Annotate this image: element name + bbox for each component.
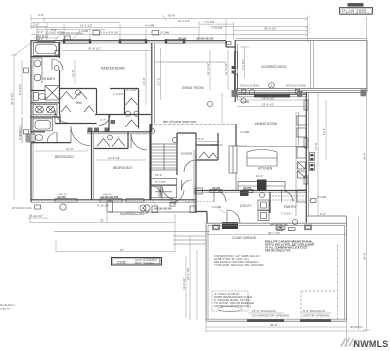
svg-text:PLAN 2685: PLAN 2685 — [342, 9, 367, 14]
svg-text:PER IRC R302.6 TYP.: PER IRC R302.6 TYP. — [265, 249, 291, 253]
svg-text:PANTRY: PANTRY — [284, 205, 298, 209]
entry closet boxes below stairs — [151, 178, 177, 198]
deck posts at house corner — [311, 41, 314, 89]
svg-text:30'-6 1/2": 30'-6 1/2" — [10, 92, 14, 105]
svg-text:(4'-1 1/2": (4'-1 1/2" — [178, 19, 190, 23]
window header labels above bottom wall — [57, 194, 119, 199]
svg-text:UTILITY: UTILITY — [240, 204, 253, 208]
closet by nook — [196, 133, 218, 160]
svg-text:2-CHB: 2-CHB — [212, 205, 221, 209]
front door arcs at entry — [214, 190, 226, 202]
entry door arcs — [162, 186, 184, 203]
sq ft box — [112, 258, 162, 266]
svg-text:33': 33' — [100, 218, 104, 222]
keynote box A garage top-left — [213, 225, 220, 230]
nook dims interior — [198, 50, 249, 147]
master vanity double sinks — [31, 103, 60, 115]
svg-text:12'-6 1/2": 12'-6 1/2" — [182, 277, 186, 290]
svg-text:SCALE 1/4": SCALE 1/4" — [0, 308, 11, 311]
svg-text:36'-6 1/2": 36'-6 1/2" — [264, 26, 277, 30]
svg-text:16'-2": 16'-2" — [155, 173, 163, 177]
svg-text:20'-4 1/2": 20'-4 1/2" — [88, 47, 101, 51]
svg-text:13'-6 1/2": 13'-6 1/2" — [206, 62, 210, 75]
kitchen bottom counter with sink — [238, 174, 285, 196]
garage note block right — [265, 240, 314, 253]
deck rail posts — [232, 90, 367, 98]
3-CHB leader right wall — [308, 195, 326, 216]
bedroom 2 door arc — [71, 127, 90, 146]
bedroom 2 — [31, 132, 94, 200]
porch annotation symbols — [97, 200, 176, 212]
svg-text:garage): garage) — [146, 262, 154, 265]
hall smoke detector tags — [88, 88, 137, 132]
left vertical dimension line 30'-6 1/2" — [10, 43, 31, 200]
svg-text:7'-6 1/2": 7'-6 1/2" — [241, 59, 245, 70]
stair walls — [151, 124, 196, 200]
svg-text:FOYER: FOYER — [181, 152, 193, 156]
svg-text:3-CHB: 3-CHB — [317, 195, 326, 199]
svg-text:2335: 2335 — [117, 259, 127, 264]
wall between master bdrm and great room — [142, 43, 161, 132]
svg-text:11'-6": 11'-6" — [322, 128, 326, 135]
svg-text:5'-2": 5'-2" — [51, 28, 57, 32]
svg-text:6'-7 1/2": 6'-7 1/2" — [155, 180, 166, 184]
svg-text:BEDROOM 2: BEDROOM 2 — [55, 155, 74, 159]
svg-text:5-CHB: 5-CHB — [145, 24, 154, 28]
svg-text:7'-0 1/2": 7'-0 1/2" — [113, 92, 124, 96]
svg-text:15'-6 1/2": 15'-6 1/2" — [262, 103, 275, 107]
deck interior vertical dim — [240, 47, 249, 78]
top-left corner annotations — [31, 23, 105, 43]
bottom wall of bedroom wing with windows — [31, 199, 196, 203]
svg-text:16'-0" ROUGH-IN: 16'-0" ROUGH-IN — [252, 309, 276, 313]
svg-text:5040 XO: 5040 XO — [103, 194, 112, 196]
svg-text:1-CHB: 1-CHB — [79, 29, 88, 33]
garage left dims — [144, 205, 197, 320]
svg-text:KITCHEN: KITCHEN — [258, 167, 273, 171]
plan 2685 title box — [340, 3, 373, 14]
svg-text:line of bonus room over: line of bonus room over — [163, 120, 197, 124]
keynote box garage top-right — [305, 225, 312, 230]
circled keynote symbols scattered — [149, 89, 297, 224]
foyer — [181, 133, 196, 213]
svg-text:AB 206 AB 206: AB 206 AB 206 — [196, 38, 214, 41]
svg-text:W.BATH: W.BATH — [43, 77, 56, 81]
svg-text:16'-0": 16'-0" — [142, 77, 146, 85]
svg-text:5'-3 1/2": 5'-3 1/2" — [212, 143, 223, 147]
svg-text:13'-6": 13'-6" — [71, 69, 75, 77]
svg-text:2'-7": 2'-7" — [100, 118, 106, 122]
utility room — [212, 200, 288, 230]
svg-text:STUCCO RAIL: STUCCO RAIL — [240, 84, 261, 88]
great room upper-right corner step — [178, 38, 235, 48]
svg-text:MASTER BDRM: MASTER BDRM — [101, 67, 125, 71]
left wall bump-out — [19, 117, 32, 143]
svg-text:WIC: WIC — [76, 101, 83, 105]
svg-text:DINING ROOM: DINING ROOM — [255, 122, 277, 126]
misc door arcs — [55, 110, 196, 197]
porch header dark glyphs — [154, 202, 175, 210]
svg-text:4'-1 1/2": 4'-1 1/2" — [126, 88, 137, 92]
svg-text:24'-0": 24'-0" — [363, 252, 367, 260]
svg-text:BEDROOM 3: BEDROOM 3 — [113, 166, 132, 170]
svg-text:12'-0": 12'-0" — [66, 147, 74, 151]
svg-text:2'-8": 2'-8" — [33, 23, 39, 27]
top dimension line 60'-6" — [31, 13, 310, 22]
master bath tub top-left — [34, 35, 59, 56]
second tier top dimension lines — [31, 17, 310, 43]
svg-text:5040 XO: 5040 XO — [58, 194, 67, 196]
svg-text:STUCCO COL: STUCCO COL — [12, 206, 32, 210]
svg-text:17'-2": 17'-2" — [157, 77, 161, 85]
svg-text:ALL PLAN A-1: ALL PLAN A-1 — [0, 304, 15, 307]
svg-text:3-CHB: 3-CHB — [240, 130, 249, 134]
svg-text:GAR DR OPENING: GAR DR OPENING — [303, 314, 330, 318]
bottom-left sheet text — [0, 304, 15, 311]
w.bath toilet — [31, 91, 46, 101]
bath2 door arc — [47, 133, 57, 143]
house right wall below deck — [304, 92, 308, 223]
bedroom 3 closet — [94, 132, 128, 149]
svg-text:4'-10 1/2": 4'-10 1/2" — [30, 214, 43, 218]
great room soffit line — [155, 61, 227, 63]
nook area walls — [196, 124, 306, 193]
interior dim texts left wing — [35, 60, 146, 160]
svg-text:7'-6 1/2": 7'-6 1/2" — [281, 212, 292, 216]
great room east windows (deck wall) — [227, 42, 246, 103]
dining north wall with slider — [236, 94, 307, 98]
svg-text:GREAT ROOM: GREAT ROOM — [182, 86, 204, 90]
svg-text:7'-0 1/2": 7'-0 1/2" — [204, 20, 215, 24]
master bedroom interior dim — [62, 47, 150, 51]
bedroom 3 door arc — [131, 134, 147, 150]
svg-text:27': 27' — [120, 248, 124, 252]
svg-text:STUCCO: STUCCO — [350, 325, 363, 329]
garage interior dim 30'-7 1/2" — [207, 228, 346, 235]
bath door arc — [52, 51, 63, 71]
left exterior wall — [31, 40, 33, 202]
svg-text:16'-6 1/2": 16'-6 1/2" — [262, 96, 275, 100]
svg-text:8'-0" ROUGH-IN: 8'-0" ROUGH-IN — [303, 309, 325, 313]
right wall appliance tags — [310, 153, 315, 171]
pantry — [270, 191, 306, 216]
svg-text:AB 206: AB 206 — [178, 38, 187, 41]
master suite WIC walls — [60, 89, 139, 129]
garage note block left — [214, 254, 264, 267]
hall bath (bath 2) tub — [31, 117, 60, 132]
garage door thick sills — [247, 319, 331, 322]
svg-text:MAIN: MAIN — [135, 261, 142, 265]
svg-text:AB 206: AB 206 — [243, 187, 252, 190]
master closet rods (WIC) — [60, 90, 94, 112]
svg-text:9'-6 1/2": 9'-6 1/2" — [18, 84, 22, 95]
NWMLS watermark — [341, 338, 389, 350]
top exterior wall with windows — [31, 24, 226, 44]
stucco col label left — [12, 204, 66, 218]
svg-text:66'-0": 66'-0" — [363, 152, 367, 160]
svg-text:4'-10 1/2": 4'-10 1/2" — [97, 204, 110, 208]
house bottom wall above garage — [196, 212, 207, 224]
w.bath sinks — [34, 58, 43, 83]
svg-text:NWMLS: NWMLS — [354, 339, 389, 349]
svg-text:3-CAR GARAGE: 3-CAR GARAGE — [232, 236, 256, 240]
svg-text:TYPE 2000. REGULR TRL ROCKER: TYPE 2000. REGULR TRL ROCKER — [214, 263, 264, 267]
garage outline — [206, 216, 347, 321]
small window/keynote boxes along top wall — [93, 31, 159, 36]
svg-text:COVERED PORCH: COVERED PORCH — [120, 211, 149, 215]
walkway lines below porch — [30, 214, 210, 252]
entry step boxes — [185, 188, 215, 202]
bedroom 3 — [113, 124, 150, 200]
covered deck — [235, 38, 367, 102]
svg-text:21'-7 1/2": 21'-7 1/2" — [186, 267, 190, 280]
linen closet zig zags — [125, 98, 139, 127]
svg-text:17'-0": 17'-0" — [314, 142, 318, 150]
svg-text:AB 206 AB 206: AB 206 AB 206 — [154, 208, 172, 211]
svg-text:5'-0 x 5'-0 XO: 5'-0 x 5'-0 XO — [100, 30, 119, 34]
svg-text:60'-6": 60'-6" — [168, 14, 176, 18]
staircase — [151, 144, 177, 177]
svg-text:1: 1 — [270, 84, 272, 88]
svg-text:10'-1": 10'-1" — [256, 174, 264, 178]
garage rough-in dims — [248, 309, 331, 318]
svg-text:9'-4": 9'-4" — [320, 212, 326, 216]
svg-text:3'-0": 3'-0" — [38, 30, 44, 34]
right overall vertical dimension 66'-0" — [314, 17, 370, 330]
hall walls between master suite and bedrooms — [55, 115, 151, 134]
deck step and dims — [237, 96, 307, 106]
garage bottom dimension lines — [206, 322, 367, 347]
front door arc — [182, 180, 192, 190]
kitchen island — [247, 150, 277, 167]
svg-text:4: 4 — [142, 206, 144, 210]
svg-text:2-CHB: 2-CHB — [160, 30, 169, 34]
svg-text:2'-8": 2'-8" — [38, 13, 44, 17]
kitchen counters right wall — [237, 112, 306, 216]
svg-text:COVERED DECK: COVERED DECK — [261, 65, 287, 69]
hall bath toilet — [31, 134, 43, 142]
double shower — [45, 86, 60, 101]
svg-text:(2) GARAGE DR OPENING: (2) GARAGE DR OPENING — [252, 314, 290, 318]
garage dashed bay line — [301, 245, 338, 321]
line of bonus room over — [150, 120, 236, 125]
svg-text:11'-5 1/2": 11'-5 1/2" — [108, 156, 120, 160]
vertical dim at walk — [182, 256, 186, 318]
svg-text:14'-1 1/2": 14'-1 1/2" — [80, 24, 93, 28]
svg-text:STUCCO RAIL: STUCCO RAIL — [286, 84, 307, 88]
svg-text:8'-6 1/2": 8'-6 1/2" — [19, 125, 23, 136]
svg-text:6'-4": 6'-4" — [198, 137, 204, 141]
covered porch — [107, 201, 196, 223]
deck bottom rail — [236, 83, 367, 93]
svg-text:AB 206: AB 206 — [212, 187, 221, 190]
svg-text:7'-0 1/2": 7'-0 1/2" — [212, 26, 223, 30]
svg-text:30'-4": 30'-4" — [270, 323, 278, 327]
bath column wall — [31, 42, 60, 115]
garage dashed slab note box — [212, 291, 255, 312]
svg-text:13'-6 1/2": 13'-6 1/2" — [224, 62, 228, 75]
kitchen peninsula counter — [229, 146, 247, 190]
svg-text:30'-7 1/2": 30'-7 1/2" — [268, 231, 281, 235]
